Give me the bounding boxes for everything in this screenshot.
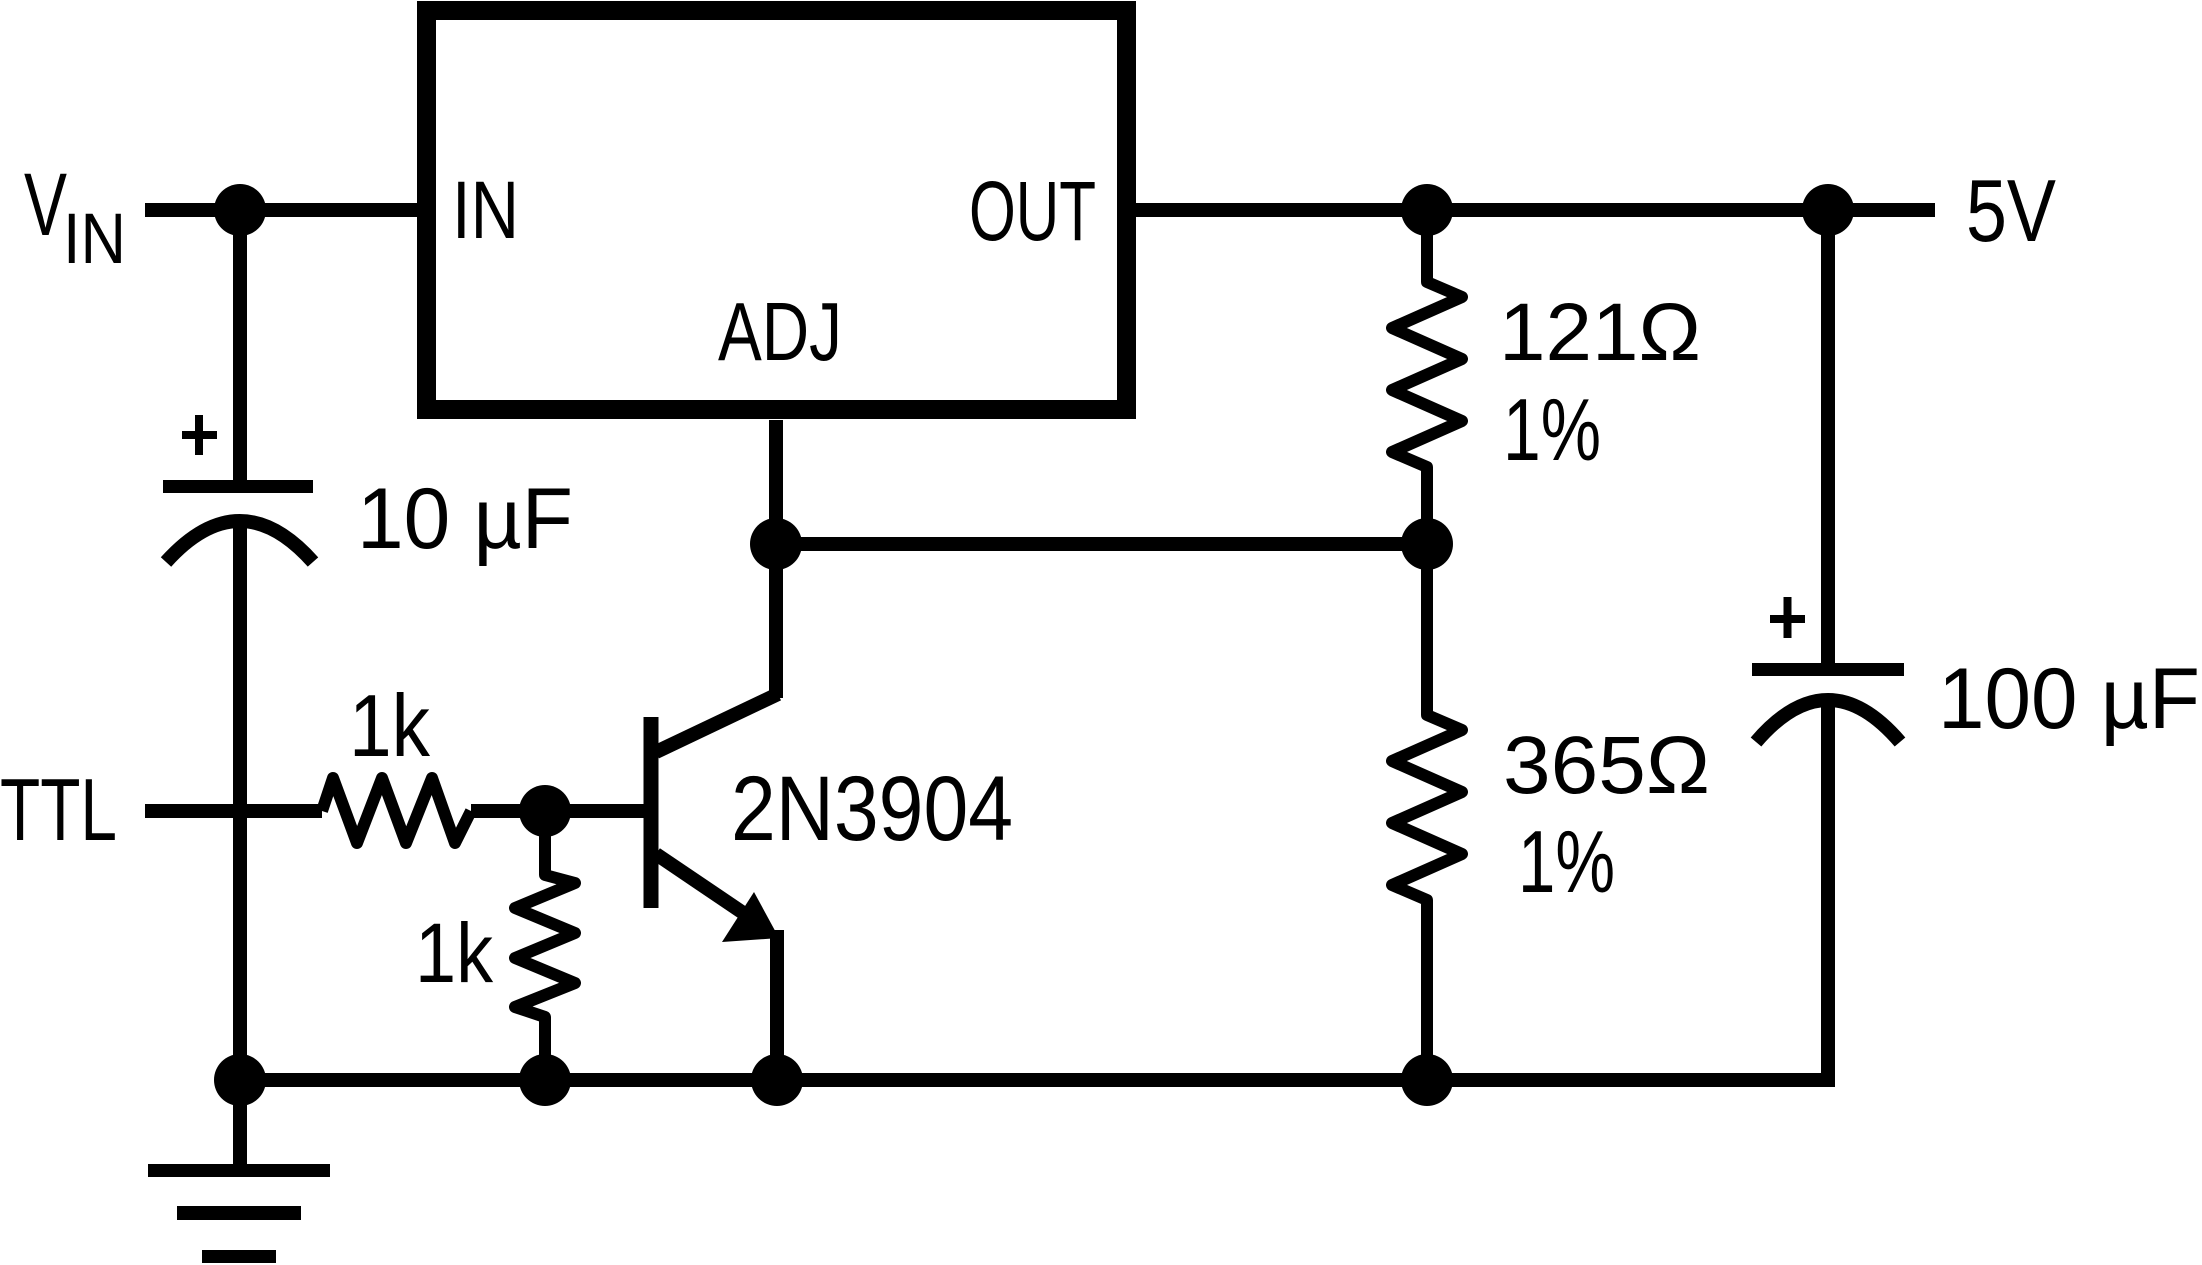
svg-text:OUT: OUT — [969, 164, 1096, 258]
capacitor C1 plus sign — [182, 431, 217, 439]
node base junction dot — [519, 785, 571, 837]
node C2 top junction dot — [1802, 184, 1854, 236]
node divider mid junction dot — [1401, 518, 1453, 570]
wire ADJ pin from box to node — [769, 420, 783, 698]
wire emitter vertical to bottom rail — [770, 930, 784, 1080]
node R2 bottom junction dot — [519, 1054, 571, 1106]
svg-text:1k: 1k — [415, 906, 494, 1000]
regulator U1 box — [427, 11, 1127, 410]
svg-text:5V: 5V — [1966, 161, 2056, 260]
svg-text:2N3904: 2N3904 — [731, 758, 1013, 860]
transistor Q1 emitter arrowhead — [722, 892, 779, 942]
svg-text:IN: IN — [452, 165, 519, 256]
wire bottom ground rail — [240, 1073, 1835, 1087]
node emitter bottom junction dot — [751, 1054, 803, 1106]
wire emitter diagonal of Q1 — [656, 854, 758, 923]
capacitor C1 curved plate arc — [166, 521, 313, 562]
wire C1 bottom plate down to bottom rail and ground stem — [233, 519, 247, 1165]
svg-text:10 µF: 10 µF — [357, 471, 573, 567]
node VIN junction dot — [214, 184, 266, 236]
wire TTL input to R1 — [145, 804, 322, 818]
svg-text:1%: 1% — [1503, 380, 1601, 479]
wire VIN node down to C1 top plate — [233, 203, 247, 481]
wire R1 to node B and transistor base — [471, 804, 644, 818]
node R4 bottom junction dot — [1401, 1054, 1453, 1106]
wire C2 bottom (arc to bottom rail) — [1821, 700, 1835, 1087]
resistor R4 365 ohm zigzag — [1392, 544, 1462, 1080]
svg-text:V: V — [24, 154, 67, 254]
ground symbol bar 1 — [148, 1164, 330, 1177]
wire C2 top (5V rail down to plate) — [1821, 203, 1835, 664]
svg-text:TTL: TTL — [0, 760, 117, 859]
capacitor C1 flat plate — [163, 480, 313, 493]
capacitor C2 plus sign — [1770, 615, 1805, 623]
svg-text:365Ω: 365Ω — [1503, 720, 1710, 811]
ground symbol bar 3 — [202, 1250, 276, 1263]
wire top rail left (VIN to regulator IN) — [145, 203, 417, 217]
capacitor C2 flat plate — [1752, 663, 1904, 676]
svg-text:1k: 1k — [349, 676, 431, 775]
ground symbol bar 2 — [177, 1206, 301, 1220]
wire ADJ node to divider node — [776, 537, 1427, 551]
wire collector diagonal of Q1 — [656, 694, 778, 752]
svg-text:IN: IN — [63, 200, 126, 279]
transistor Q1 base bar — [644, 717, 659, 908]
node 5V divider top junction dot — [1401, 184, 1453, 236]
svg-text:121Ω: 121Ω — [1499, 287, 1701, 378]
node ground rail left junction dot — [214, 1054, 266, 1106]
resistor R1 1k horizontal zigzag — [322, 778, 471, 843]
svg-text:ADJ: ADJ — [718, 285, 842, 378]
wire top rail right (regulator OUT to 5V) — [1136, 203, 1935, 217]
node ADJ junction dot — [750, 518, 802, 570]
resistor R2 1k vertical zigzag — [515, 811, 575, 1080]
resistor R3 121 ohm zigzag — [1392, 210, 1462, 544]
capacitor C2 curved plate arc — [1756, 700, 1900, 742]
svg-text:1%: 1% — [1518, 812, 1615, 911]
svg-text:100 µF: 100 µF — [1938, 651, 2200, 747]
